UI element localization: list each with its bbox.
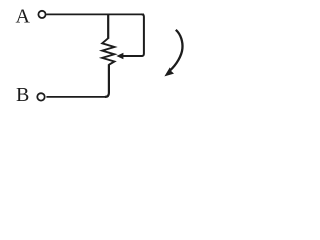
svg-text:A: A [16,6,31,28]
curved adjustment arrow (annotation) [170,30,183,71]
resistor (potentiometer body) zigzag [102,38,114,65]
wire: resistor bottom lead down to bottom wire [105,64,109,97]
wiper arrowhead pointing at resistor [116,53,123,59]
wire: top from terminal A to right corner [46,13,144,15]
terminal B (open circle) [37,93,44,100]
wire: junction drop from top wire to resistor [107,14,109,38]
wire: wiper feedback loop (right side) [122,14,144,56]
svg-text:B: B [16,84,29,106]
wire: bottom from terminal B to resistor lead [46,96,106,98]
terminal A (open circle) [38,11,45,18]
curved arrow solid head [164,67,174,76]
